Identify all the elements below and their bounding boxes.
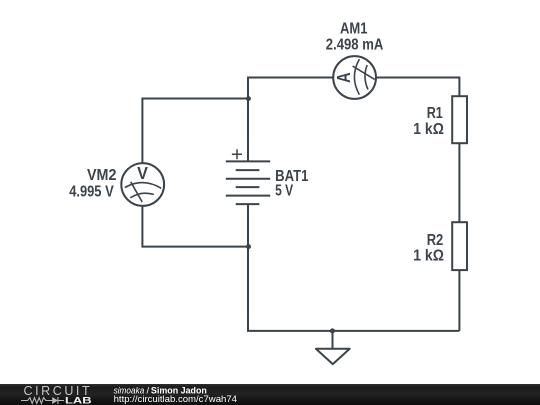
- logo diode cathode bar and wire: [58, 397, 64, 404]
- voltmeter VM2 circle: [121, 163, 164, 206]
- resistor R1: [452, 96, 467, 143]
- svg-text:5 V: 5 V: [275, 183, 294, 200]
- svg-text:LAB: LAB: [65, 396, 92, 405]
- svg-text:4.995 V: 4.995 V: [69, 184, 114, 201]
- svg-text:VM2: VM2: [87, 167, 116, 184]
- svg-text:V: V: [137, 163, 148, 183]
- ammeter dial: [353, 59, 375, 95]
- voltmeter dial: [125, 182, 161, 202]
- svg-text:2.498 mA: 2.498 mA: [326, 36, 384, 53]
- wire R1 bottom to R2 top: [458, 144, 460, 223]
- svg-text:1 kΩ: 1 kΩ: [413, 121, 444, 138]
- wire voltmeter bottom branch: [142, 206, 248, 247]
- battery BAT1: [226, 161, 270, 204]
- svg-text:1 kΩ: 1 kΩ: [413, 248, 444, 265]
- wire R2 bottom to bottom rail: [458, 270, 460, 331]
- svg-text:http://circuitlab.com/c7wah74: http://circuitlab.com/c7wah74: [114, 394, 237, 405]
- svg-text:A: A: [334, 72, 354, 83]
- svg-text:R2: R2: [427, 232, 444, 249]
- node dot ground junction: [330, 328, 335, 333]
- footer bar: [0, 384, 540, 405]
- ammeter AM1 circle: [333, 56, 376, 99]
- wire voltmeter top branch: [142, 99, 248, 164]
- logo resistor zigzag: [21, 397, 64, 404]
- logo diode triangle: [52, 397, 58, 404]
- svg-text:R1: R1: [427, 105, 443, 122]
- wire top from battery node to ammeter left: [248, 78, 334, 162]
- node dot junction left-bottom: [246, 244, 251, 249]
- svg-text:AM1: AM1: [340, 20, 368, 37]
- ground: [316, 331, 350, 364]
- footer logo and attribution: [0, 384, 300, 405]
- wire ammeter right to R1 top: [376, 78, 460, 97]
- resistor R2: [452, 222, 467, 270]
- wire bottom rail: [248, 204, 459, 331]
- battery plus sign: [232, 149, 242, 159]
- node dot junction left-top: [246, 96, 251, 101]
